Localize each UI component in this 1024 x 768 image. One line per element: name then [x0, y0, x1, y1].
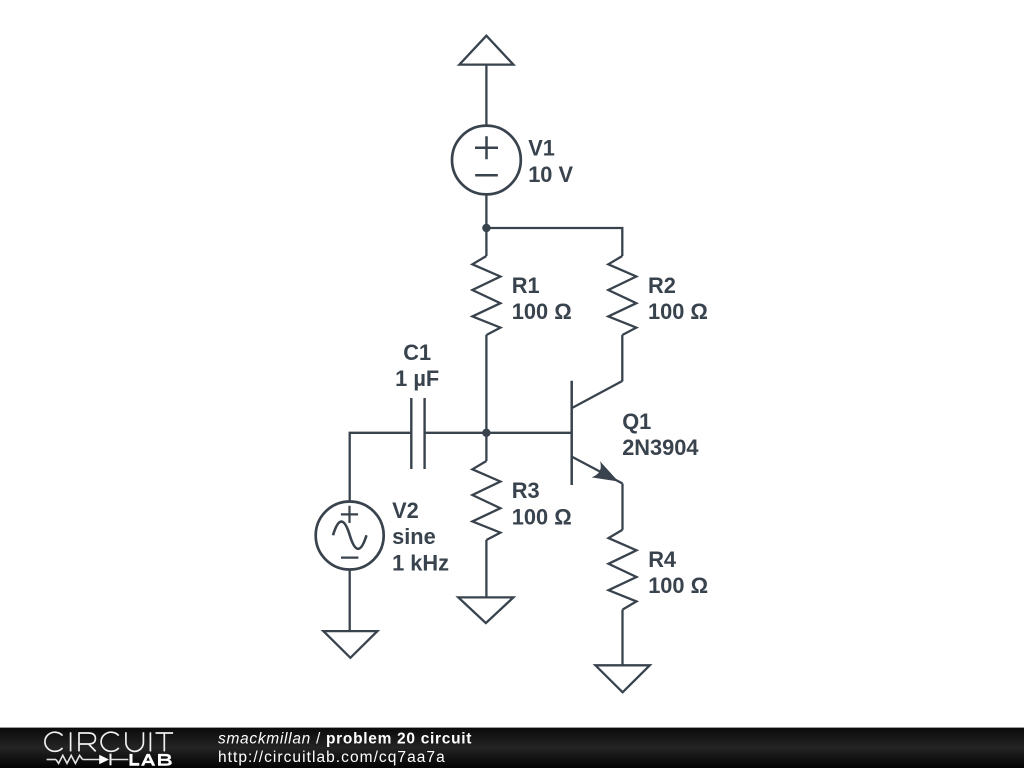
svg-text:C1: C1 [403, 340, 431, 365]
wire C1 right plate to node B [425, 432, 487, 434]
svg-text:smackmillan / problem 20 circu: smackmillan / problem 20 circuit [218, 731, 472, 748]
wire V2 to ground [349, 570, 351, 632]
svg-text:R1: R1 [512, 273, 540, 298]
resistor R4 [609, 530, 637, 666]
wire node A to R2 top [486, 228, 622, 256]
svg-text:V2: V2 [392, 498, 419, 523]
wire node B to Q1 base [486, 432, 571, 434]
svg-text:100 Ω: 100 Ω [512, 504, 572, 529]
svg-text:2N3904: 2N3904 [622, 435, 698, 460]
svg-text:Q1: Q1 [622, 409, 651, 434]
label V2 sine 1 kHz [392, 498, 449, 576]
resistor R1 [472, 228, 500, 433]
CircuitLab logo CIRCUIT lettering [45, 732, 173, 751]
CircuitLab logo schematic squiggle (resistor + diode) [47, 754, 129, 766]
svg-text:http://circuitlab.com/cq7aa7a: http://circuitlab.com/cq7aa7a [218, 749, 446, 766]
svg-text:100 Ω: 100 Ω [512, 299, 572, 324]
node A junction [482, 224, 490, 232]
footer title smackmillan / problem 20 circuit [218, 731, 472, 748]
transistor Q1 2N3904 [572, 381, 623, 485]
svg-text:R4: R4 [648, 547, 676, 572]
label R4 100 Ω [648, 547, 708, 598]
wire power flag to V1 [485, 65, 487, 126]
ground for R3 [458, 597, 513, 623]
svg-text:R3: R3 [512, 478, 540, 503]
svg-text:R2: R2 [648, 273, 676, 298]
label R1 100 Ω [512, 273, 572, 324]
label V1 10 V [528, 136, 573, 187]
svg-text:V1: V1 [528, 136, 555, 161]
wire V1 to node A [485, 194, 487, 228]
svg-text:100 Ω: 100 Ω [648, 573, 708, 598]
svg-text:1 kHz: 1 kHz [392, 551, 449, 576]
voltage source V1 [452, 126, 521, 195]
label Q1 2N3904 [622, 409, 698, 460]
footer url [218, 749, 446, 766]
label R3 100 Ω [512, 478, 572, 529]
label C1 1 µF [395, 340, 439, 391]
node B junction [482, 429, 490, 437]
wire Q1 emitter to R4 [621, 484, 623, 530]
resistor R2 [608, 256, 636, 381]
svg-text:100 Ω: 100 Ω [648, 299, 708, 324]
ground for R4 [595, 665, 649, 692]
ground for V2 [323, 631, 377, 658]
resistor R3 [472, 433, 500, 598]
label R2 100 Ω [648, 273, 708, 324]
CircuitLab logo LAB lettering [130, 754, 172, 766]
voltage source V2 [316, 502, 384, 570]
svg-text:sine: sine [392, 524, 436, 549]
footer bar [0, 728, 1024, 768]
wire C1 left plate to V2 [350, 433, 412, 502]
capacitor C1 [411, 398, 424, 469]
svg-text:10 V: 10 V [528, 162, 573, 187]
svg-text:1 µF: 1 µF [395, 366, 439, 391]
power flag V+ [459, 36, 513, 65]
